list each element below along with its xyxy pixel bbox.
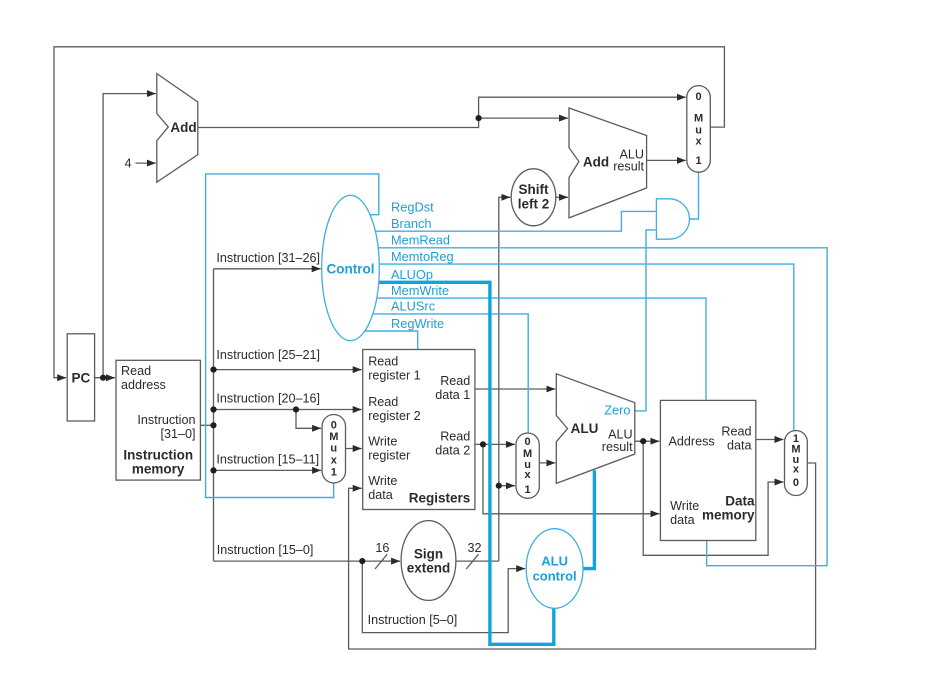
svg-text:ALU: ALU (571, 421, 599, 436)
svg-text:MemtoReg: MemtoReg (391, 249, 454, 264)
svg-text:data: data (368, 488, 393, 502)
svg-text:MemRead: MemRead (391, 233, 450, 248)
adder Add (branch target) (569, 108, 647, 218)
wire ALUSrc mux output to ALU (539, 462, 555, 464)
svg-text:4: 4 (124, 157, 131, 171)
svg-text:Address: Address (669, 434, 715, 448)
svg-text:Instruction [15–0]: Instruction [15–0] (217, 543, 314, 557)
wire ALUSrc control to mux select (350, 314, 528, 433)
wire ALU control output to ALU (thick) (581, 470, 594, 568)
wire MemtoReg control to WB mux select (350, 264, 794, 431)
svg-text:Instruction [15–11]: Instruction [15–11] (216, 452, 319, 466)
wire AND gate output to top mux select (690, 172, 699, 219)
instruction memory box (116, 360, 200, 480)
wire Data memory Read data to WB mux input 1 (756, 439, 784, 441)
svg-text:x: x (696, 136, 703, 148)
svg-text:memory: memory (702, 508, 755, 523)
svg-text:Instruction [31–26]: Instruction [31–26] (216, 251, 320, 265)
wire sign-extended value to ALUSrc mux input 1 (499, 485, 515, 487)
WB mux (785, 431, 808, 496)
wire Instruction[25-21] to Read register 1 (214, 369, 362, 371)
svg-text:Control: Control (327, 261, 375, 276)
svg-text:Write: Write (368, 474, 397, 488)
svg-text:Write: Write (670, 499, 699, 513)
svg-text:data: data (727, 439, 752, 453)
registers box (363, 350, 475, 510)
node PC+4 (476, 115, 482, 121)
svg-text:1: 1 (331, 467, 337, 479)
wire RegWrite control to Registers (350, 331, 418, 349)
data memory box (660, 400, 755, 540)
svg-text:Write: Write (368, 434, 397, 448)
svg-text:address: address (121, 378, 166, 392)
wire Instruction[31-26] to Control (214, 268, 321, 270)
svg-text:x: x (793, 464, 800, 476)
svg-text:0: 0 (525, 436, 531, 448)
adder Add (PC+4) (157, 74, 198, 183)
wire PC+4 from Add to top mux input 0 (198, 97, 686, 127)
svg-text:data 2: data 2 (435, 443, 470, 457)
svg-text:register 1: register 1 (368, 369, 421, 383)
wire Read data 2 to Data memory Write data (483, 444, 659, 513)
svg-text:ALU: ALU (541, 553, 568, 568)
svg-text:memory: memory (132, 461, 185, 476)
svg-text:Read: Read (721, 425, 751, 439)
svg-text:Instruction: Instruction (123, 447, 193, 462)
svg-text:data: data (670, 513, 695, 527)
svg-text:32: 32 (467, 541, 481, 555)
wire instruction memory output to bus (200, 424, 213, 426)
svg-text:x: x (525, 469, 532, 481)
wire PC value up to Add (103, 94, 156, 378)
node PC output (100, 375, 106, 381)
svg-text:u: u (330, 443, 337, 455)
node bus Instruction[25-21] (210, 367, 216, 373)
svg-text:[31–0]: [31–0] (160, 427, 195, 441)
svg-text:extend: extend (407, 561, 451, 576)
node Read data 2 branch (480, 441, 486, 447)
svg-text:M: M (694, 113, 703, 125)
wire ALU result to Data memory Address (635, 440, 660, 442)
svg-text:M: M (329, 431, 338, 443)
wire sign extend output (456, 560, 499, 562)
node bus Instruction[20-16] (210, 406, 216, 412)
svg-text:data 1: data 1 (435, 388, 470, 402)
wire Branch control to AND gate (350, 211, 656, 231)
node bus Instruction[15-11] (210, 467, 216, 473)
RegDst mux (322, 415, 345, 484)
wire Zero output to AND gate (635, 230, 656, 411)
svg-text:Data: Data (725, 494, 755, 509)
wire instruction bus vertical (213, 269, 215, 561)
oval ALU control (526, 529, 583, 609)
svg-text:RegDst: RegDst (391, 200, 434, 215)
svg-text:0: 0 (793, 477, 799, 489)
wire PC-feedback from top mux output to PC input (54, 47, 724, 378)
svg-text:PC: PC (72, 371, 91, 386)
svg-text:1: 1 (525, 484, 531, 496)
top mux (PC source) (687, 86, 711, 173)
svg-text:Instruction: Instruction (137, 413, 195, 427)
wire PC+4 to branch Add top input (479, 117, 568, 119)
wire branch Add result to top mux input 1 (647, 159, 686, 161)
svg-text:Read: Read (368, 395, 398, 409)
svg-text:left 2: left 2 (518, 196, 550, 211)
svg-text:control: control (533, 568, 577, 583)
wire Instruction[20-16] branch to RegDst mux input 0 (296, 410, 321, 429)
node Instruction[15-0] branch (359, 558, 365, 564)
svg-text:ALUOp: ALUOp (391, 267, 433, 282)
oval Shift left 2 (511, 169, 556, 226)
wire constant 4 into Add (136, 162, 156, 164)
svg-text:ALUSrc: ALUSrc (391, 299, 436, 314)
svg-text:Read: Read (368, 354, 398, 368)
svg-text:1: 1 (696, 155, 702, 167)
svg-text:MemWrite: MemWrite (391, 283, 449, 298)
wire MemWrite control to Data memory (350, 298, 706, 400)
AND gate (branch) (656, 199, 689, 239)
ALU main (556, 374, 635, 484)
svg-text:Read: Read (121, 364, 151, 378)
oval Control (322, 195, 380, 340)
node sign extend to mux (496, 483, 502, 489)
bit-width slash 32 (466, 554, 478, 569)
PC register box (67, 334, 94, 421)
wire WB mux output back to Write data (349, 463, 816, 649)
svg-text:Add: Add (583, 154, 609, 169)
bit-width slash 16 (375, 554, 387, 569)
wire Instruction[15-0] to Sign extend (214, 560, 401, 562)
ALUSrc mux (516, 433, 539, 498)
wire PC output to instruction memory (95, 377, 115, 379)
svg-text:0: 0 (331, 420, 337, 432)
svg-text:Registers: Registers (409, 491, 471, 506)
wire Read data 2 to ALUSrc mux input 0 (475, 443, 515, 445)
svg-text:result: result (602, 440, 633, 454)
svg-text:Shift: Shift (519, 182, 549, 197)
svg-text:Add: Add (170, 120, 196, 135)
wire ALUOp control to ALU control (thick) (350, 282, 554, 644)
wire Instruction[15-11] to RegDst mux input 1 (214, 469, 322, 471)
shapes-layer (67, 74, 807, 628)
node Instruction[20-16] branch (293, 406, 299, 412)
svg-text:0: 0 (696, 91, 702, 103)
wire RegDst control (206, 174, 379, 498)
svg-text:RegWrite: RegWrite (391, 316, 444, 331)
wire ALU result bypass to WB mux input 0 (643, 441, 783, 555)
node bus IM output (210, 422, 216, 428)
wires-layer (54, 47, 827, 649)
svg-text:result: result (613, 159, 644, 173)
svg-text:Branch: Branch (391, 216, 432, 231)
svg-text:register: register (368, 448, 410, 462)
svg-text:Instruction [20–16]: Instruction [20–16] (216, 392, 320, 406)
svg-text:Sign: Sign (414, 547, 443, 562)
wire Read data 1 to ALU (475, 388, 555, 390)
svg-text:Read: Read (440, 374, 470, 388)
svg-text:x: x (331, 455, 338, 467)
wire Shift left 2 output to branch Add (556, 196, 568, 198)
svg-text:Read: Read (440, 429, 470, 443)
wire Instruction[5-0] to ALU control (362, 561, 525, 633)
wire MemRead control to Data memory (350, 248, 827, 566)
svg-text:Instruction [5–0]: Instruction [5–0] (368, 613, 458, 627)
node ALU result branch (640, 438, 646, 444)
svg-text:16: 16 (375, 541, 389, 555)
wire Instruction[20-16] to Read register 2 (214, 409, 362, 411)
svg-text:Zero: Zero (604, 402, 630, 417)
svg-text:register 2: register 2 (368, 409, 421, 423)
wire RegDst mux output to Write register (346, 448, 362, 450)
oval Sign extend (401, 521, 456, 601)
svg-text:Instruction [25–21]: Instruction [25–21] (216, 348, 320, 362)
wire sign-extended value up to Shift left 2 (499, 197, 511, 561)
